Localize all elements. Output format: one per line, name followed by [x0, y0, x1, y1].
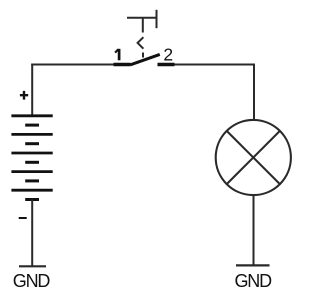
svg-text:GND: GND [13, 271, 51, 287]
svg-text:2: 2 [163, 45, 173, 65]
svg-text:GND: GND [234, 271, 272, 287]
